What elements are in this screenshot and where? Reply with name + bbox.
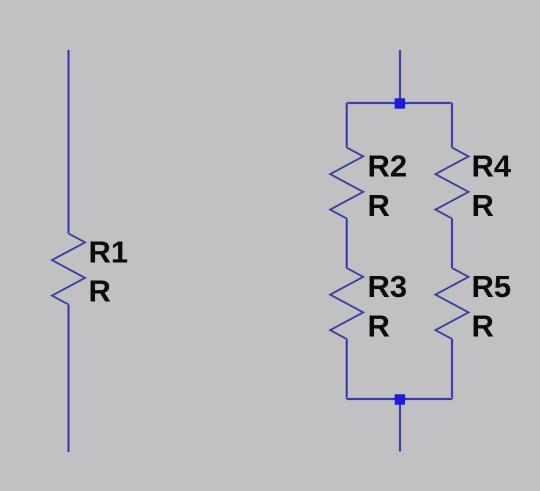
node A junction (top) [395,98,405,108]
wire between R2 and R3 [345,219,348,269]
wire top rail [347,101,452,104]
wire R2 top lead [345,103,348,148]
wire bottom lead of R1 [67,305,70,453]
resistor R3 [330,268,363,339]
node B junction (bottom) [395,394,405,404]
wire R4 top lead [450,103,453,148]
svg-text:R1: R1 [89,235,129,270]
svg-text:R4: R4 [472,149,512,184]
wire R5 bottom lead [450,339,453,399]
svg-text:R: R [368,188,390,223]
wire top lead of R1 [67,50,70,234]
svg-text:R: R [472,309,494,344]
wire bottom rail [347,397,452,400]
wire top stub into node A [398,50,401,103]
svg-text:R3: R3 [368,269,408,304]
resistor R2 [330,148,363,219]
svg-text:R2: R2 [368,149,408,184]
wire R3 bottom lead [345,339,348,399]
wire bottom stub from node B [398,399,401,452]
resistor R4 [436,148,469,219]
svg-text:R: R [368,309,390,344]
svg-text:R: R [89,274,111,309]
resistor R5 [436,268,469,339]
svg-text:R5: R5 [472,269,512,304]
svg-text:R: R [472,188,494,223]
resistor R1 [52,234,85,305]
wire between R4 and R5 [450,219,453,269]
